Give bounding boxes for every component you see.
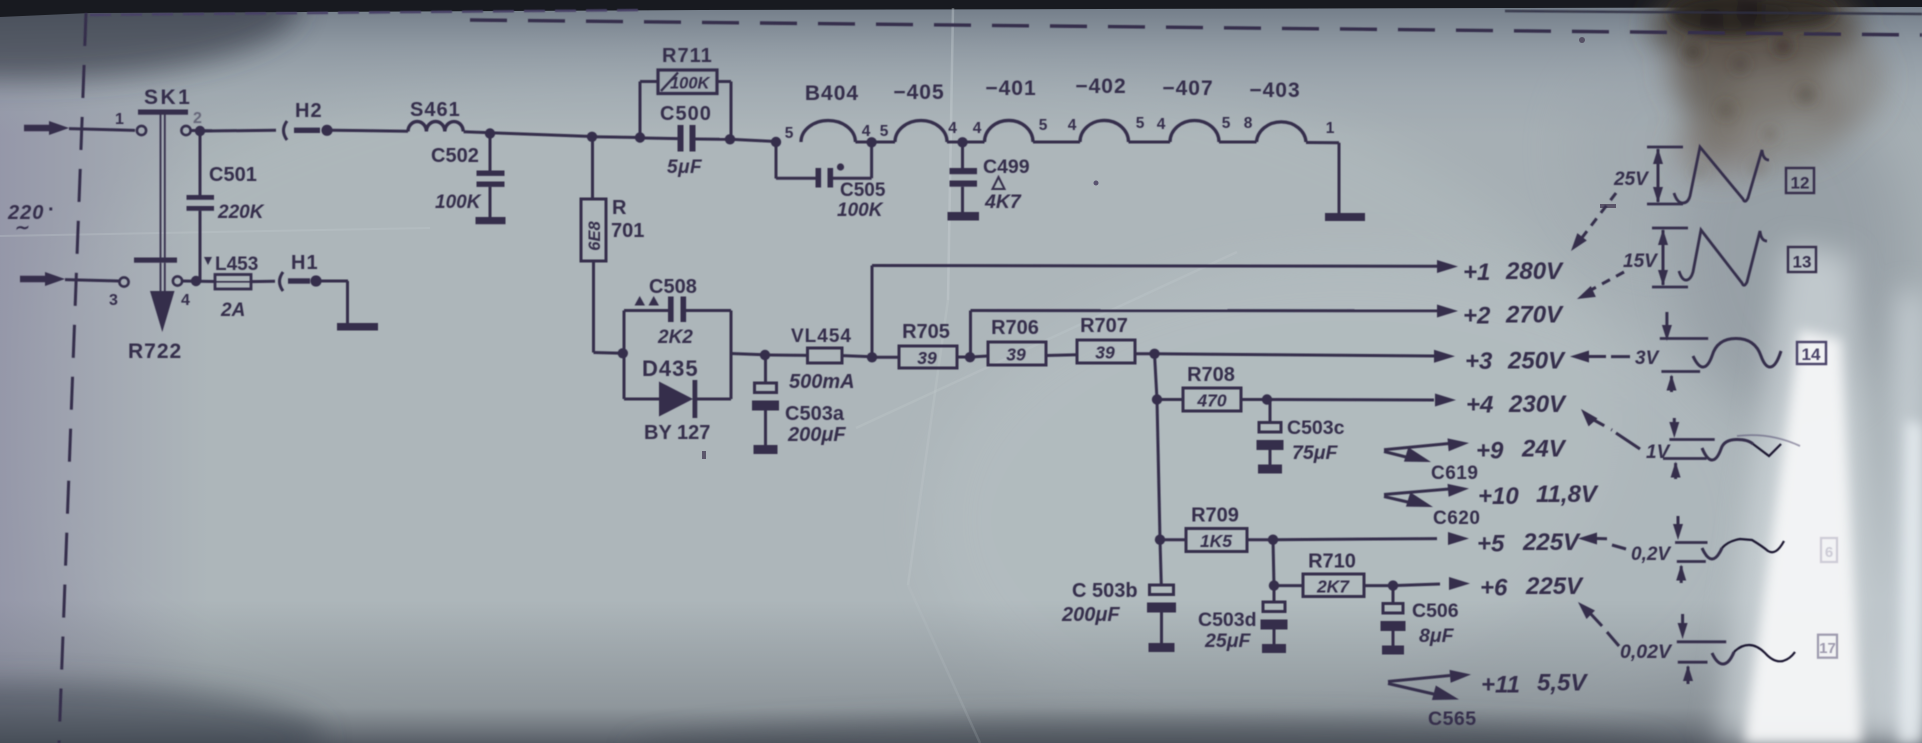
capacitor C505 [776, 142, 872, 188]
switch SK1 pin 2 [181, 110, 202, 135]
pointer 25V to +1 [1571, 193, 1616, 251]
inductor S461 [408, 99, 463, 132]
node R705-R706 [965, 352, 975, 362]
svg-text:5: 5 [1039, 117, 1048, 134]
choke -407 [1162, 77, 1219, 142]
svg-text:220K: 220K [217, 202, 265, 223]
value 8uF [1419, 625, 1455, 647]
wire to B404 [730, 139, 776, 141]
node R708 out [1262, 394, 1272, 404]
mains input arrow bottom [20, 272, 119, 286]
wire R710 out [1364, 584, 1393, 587]
svg-text:S461: S461 [410, 99, 461, 121]
label R722 [128, 340, 182, 363]
resistor R709 [1186, 505, 1247, 552]
waveform 1V [1702, 435, 1800, 460]
measure 1V top arrow [1669, 418, 1714, 440]
node C503a [760, 350, 770, 360]
svg-text:C619: C619 [1431, 463, 1478, 484]
switch SK1 contact bar bottom [134, 258, 177, 263]
svg-text:1: 1 [1326, 120, 1335, 137]
choke B404 [801, 82, 859, 142]
box 17 [1818, 635, 1837, 658]
chassis bar after H1 [337, 323, 378, 331]
value 220K [217, 202, 265, 223]
label C503d [1198, 609, 1257, 631]
switch SK1 label [144, 86, 192, 109]
capacitor C501 [187, 131, 215, 281]
chassis bar choke end [1325, 213, 1365, 221]
svg-text:0,02V: 0,02V [1620, 641, 1673, 663]
svg-text:C500: C500 [660, 103, 712, 125]
output fork +10 C620 [1384, 484, 1480, 529]
svg-text:225V: 225V [1525, 573, 1584, 600]
wire choke end down [1306, 143, 1339, 214]
svg-text:+6: +6 [1480, 575, 1508, 602]
svg-text:BY 127: BY 127 [644, 422, 710, 444]
label C508 [649, 276, 697, 298]
svg-text:200μF: 200μF [1061, 604, 1120, 626]
svg-text:C499: C499 [983, 156, 1030, 178]
fuse L453 [182, 275, 251, 290]
svg-text:R710: R710 [1308, 551, 1356, 573]
wire to R706 [970, 356, 988, 357]
label D435 [642, 356, 699, 381]
node C501 top [195, 126, 205, 136]
value 5uF [667, 157, 703, 178]
wire rail down [1155, 354, 1162, 585]
svg-text:5: 5 [1136, 115, 1145, 132]
svg-text:0,2V: 0,2V [1631, 544, 1671, 565]
boundary dashed border top fine [90, 10, 648, 15]
svg-text:17: 17 [1819, 640, 1836, 657]
wire to R708 [1157, 398, 1183, 401]
choke -401 [985, 77, 1037, 142]
svg-text:C505: C505 [840, 180, 886, 201]
mains input arrow top [24, 121, 135, 135]
wire +1 riser [872, 266, 1437, 358]
svg-text:2A: 2A [220, 300, 245, 321]
svg-text:200μF: 200μF [787, 424, 846, 446]
svg-text:C502: C502 [431, 145, 479, 167]
boundary dashed border left [59, 13, 86, 743]
connector H1 [251, 252, 322, 291]
box 12 [1786, 168, 1814, 193]
label C501 [209, 164, 257, 186]
wire +4 line [1267, 398, 1434, 402]
label C502 [431, 145, 479, 167]
measure 0,02V top arrow [1677, 614, 1726, 642]
svg-text:100K: 100K [670, 75, 711, 93]
wire choke segments [855, 141, 1256, 144]
label R701 [611, 197, 644, 242]
wire H1 to chassis [321, 281, 348, 323]
svg-text:+3: +3 [1465, 348, 1493, 375]
resistor R705 [899, 321, 957, 368]
label +9 [1476, 436, 1567, 465]
svg-text:R709: R709 [1191, 505, 1239, 527]
svg-text:5: 5 [785, 125, 794, 142]
svg-text:4: 4 [862, 123, 871, 140]
svg-text:6E8: 6E8 [586, 220, 604, 250]
label 220V mains [7, 199, 55, 237]
wire to R709 [1160, 538, 1186, 541]
svg-text:L453: L453 [215, 254, 258, 275]
svg-text:12: 12 [1791, 174, 1810, 193]
label L453 [204, 254, 258, 275]
switch SK1 contact bar top [138, 110, 188, 115]
wire to R710 [1274, 584, 1303, 587]
switch SK1 pin 3 [109, 277, 129, 309]
marker triangle C499 [993, 177, 1005, 189]
switch SK1 pin 4 [173, 276, 190, 309]
capacitor C503c [1257, 400, 1284, 474]
svg-text:−405: −405 [893, 81, 944, 104]
wire S461 to node [464, 132, 592, 137]
value 2K2 [657, 327, 693, 348]
label C499 [983, 156, 1030, 178]
label R711 [662, 45, 713, 67]
wire H2 to S461 [332, 129, 408, 133]
waveform 14 [1693, 339, 1781, 368]
svg-text:270V: 270V [1505, 302, 1564, 329]
svg-text:15V: 15V [1623, 251, 1658, 272]
waveform sawtooth 13 [1679, 230, 1767, 285]
marker triangles C508 [635, 296, 660, 306]
connector H2 [284, 100, 333, 140]
svg-text:6: 6 [1825, 544, 1833, 561]
capacitor C502 [477, 134, 505, 217]
output arrow +5 [1448, 529, 1581, 558]
capacitor C499 [950, 143, 978, 213]
svg-text:+9: +9 [1476, 438, 1504, 465]
measure 3V bottom arrow [1661, 372, 1700, 393]
wire D435 frame [624, 311, 764, 400]
measure 0,2V top arrow [1673, 516, 1708, 543]
svg-text:1: 1 [115, 111, 124, 128]
svg-text:4: 4 [1157, 116, 1166, 133]
label +10 [1478, 481, 1599, 510]
label C503b [1072, 580, 1138, 602]
svg-text:R711: R711 [662, 45, 713, 67]
pointer 1V to +4 [1581, 409, 1640, 449]
node choke 2-3 [957, 137, 967, 147]
measure 25V [1647, 147, 1683, 204]
svg-text:230V: 230V [1508, 391, 1567, 418]
svg-text:701: 701 [611, 220, 644, 242]
resistor R710 [1303, 551, 1364, 597]
svg-text:100K: 100K [435, 192, 482, 213]
svg-text:4: 4 [1068, 117, 1077, 134]
output arrow +2 [1437, 302, 1564, 330]
wire node to H2 [204, 129, 276, 133]
value 75uF [1292, 442, 1338, 464]
svg-text:39: 39 [1006, 345, 1026, 365]
capacitor C500 [644, 125, 728, 152]
svg-text:13: 13 [1793, 253, 1812, 272]
box 6 faint [1821, 538, 1837, 562]
value 100K [435, 192, 482, 213]
wire rail R710 [1273, 540, 1274, 586]
output arrow +6 [1449, 573, 1584, 602]
svg-text:C503d: C503d [1198, 609, 1257, 631]
wire +2 riser [971, 311, 1438, 358]
label C503a [785, 403, 845, 425]
switch SK1 actuator link [161, 115, 165, 258]
svg-text:R708: R708 [1187, 364, 1235, 386]
label +11 [1481, 670, 1588, 699]
node R708 in [1152, 394, 1162, 404]
resistor R707 [1077, 315, 1135, 363]
label 25V [1613, 169, 1649, 190]
svg-text:4: 4 [973, 120, 982, 137]
label 0,02V [1620, 641, 1673, 663]
pointer 0,2V to +5 [1578, 533, 1626, 550]
label C506 [1412, 600, 1459, 622]
output arrow +3 [1434, 348, 1566, 376]
node R709 in [1155, 535, 1165, 545]
capacitor C508 [668, 297, 686, 323]
value 4K7 [984, 191, 1022, 213]
box 14 [1797, 342, 1826, 364]
pointer 15V to +2 [1577, 272, 1624, 299]
svg-text:+4: +4 [1466, 392, 1493, 419]
node C502 [485, 128, 495, 138]
svg-text:4: 4 [948, 120, 957, 137]
svg-text:5,5V: 5,5V [1537, 670, 1588, 697]
svg-text:3V: 3V [1635, 348, 1660, 369]
svg-text:+2: +2 [1463, 303, 1491, 330]
output arrow +1 [1437, 258, 1564, 286]
wire R709 out [1247, 538, 1273, 541]
label 15V [1623, 251, 1658, 272]
node C500 left [635, 132, 645, 142]
svg-text:C 503b: C 503b [1072, 580, 1138, 602]
resistor R706 [988, 317, 1046, 365]
output fork +11 C565 [1388, 670, 1477, 730]
svg-text:C503c: C503c [1287, 417, 1345, 439]
measure 0,2V bottom arrow [1676, 562, 1706, 584]
svg-text:8: 8 [1244, 115, 1253, 132]
svg-text:+10: +10 [1478, 483, 1519, 510]
node choke 1-2 [866, 137, 876, 147]
svg-text:R706: R706 [991, 317, 1039, 339]
svg-text:C503a: C503a [785, 403, 845, 425]
svg-text:5: 5 [880, 123, 889, 140]
label BY 127 [644, 422, 710, 444]
svg-text:24V: 24V [1521, 436, 1567, 463]
node R710 out [1388, 580, 1398, 590]
svg-text:+11: +11 [1481, 672, 1520, 699]
fuse VL454 [770, 348, 872, 363]
svg-text:R: R [612, 197, 627, 219]
choke pin numbers [785, 115, 1335, 142]
boundary dashed border top heavy [470, 20, 1922, 35]
svg-text:500mA: 500mA [789, 371, 855, 393]
choke -405 [893, 81, 947, 142]
label 0,2V [1631, 544, 1671, 565]
svg-text:+1: +1 [1463, 259, 1490, 286]
svg-text:−407: −407 [1162, 77, 1213, 100]
svg-text:C508: C508 [649, 276, 697, 298]
svg-text:C620: C620 [1433, 508, 1480, 529]
chassis bar C502 [476, 217, 506, 224]
paper top edge line [1505, 11, 1922, 14]
node C500 right [725, 134, 735, 144]
label C505 [840, 180, 886, 201]
svg-text:2: 2 [193, 110, 202, 127]
svg-text:H2: H2 [295, 100, 323, 122]
box 13 [1788, 247, 1816, 272]
output fork +9 C619 [1384, 438, 1478, 484]
node R707 out [1149, 349, 1159, 359]
measure 15V [1652, 228, 1688, 287]
pointer 0,02V to +6 [1578, 602, 1619, 646]
svg-text:8μF: 8μF [1419, 625, 1455, 647]
switch SK1 pin 1 [115, 111, 146, 135]
measure 3V top arrow [1660, 312, 1708, 341]
diode BY127 [659, 380, 697, 418]
node R710 in [1269, 580, 1279, 590]
label 1V [1646, 442, 1671, 463]
node R709 out [1268, 535, 1278, 545]
svg-text:−401: −401 [985, 77, 1036, 100]
arrow R722 [150, 263, 175, 332]
wire pin2 to node [191, 129, 212, 132]
resistor R711 [640, 70, 731, 139]
svg-text:280V: 280V [1505, 258, 1564, 285]
svg-text:11,8V: 11,8V [1536, 481, 1599, 508]
node C501 bottom [191, 276, 201, 286]
wire R708 out [1241, 398, 1267, 401]
measure 0,02V bottom arrow [1678, 662, 1708, 684]
capacitor C503a [752, 355, 779, 454]
svg-text:75μF: 75μF [1292, 442, 1338, 464]
output arrow +4 [1435, 391, 1567, 419]
svg-text:25μF: 25μF [1204, 630, 1251, 652]
wire +6 line [1393, 584, 1440, 586]
wire +3 line [1155, 354, 1435, 356]
svg-text:250V: 250V [1507, 348, 1566, 375]
svg-text:5: 5 [1222, 115, 1231, 132]
label VL454 [791, 326, 852, 347]
capacitor C506 [1381, 586, 1406, 655]
node B404 in [771, 137, 781, 147]
measure 1V bottom arrow [1663, 459, 1707, 480]
svg-text:H1: H1 [291, 252, 319, 274]
svg-text:4K7: 4K7 [984, 191, 1022, 213]
svg-text:39: 39 [1095, 343, 1115, 363]
svg-text:D435: D435 [642, 356, 699, 381]
svg-text:470: 470 [1196, 391, 1226, 411]
svg-text:5μF: 5μF [667, 157, 703, 178]
capacitor C503b [1147, 585, 1176, 652]
svg-text:−402: −402 [1075, 75, 1126, 98]
svg-text:·: · [48, 199, 55, 221]
svg-text:14: 14 [1802, 345, 1821, 364]
wire +5 line [1273, 539, 1437, 540]
resistor R701 [581, 137, 622, 353]
chassis bar C499 [948, 212, 980, 221]
svg-text:100K: 100K [837, 200, 884, 221]
svg-text:1K5: 1K5 [1200, 531, 1232, 551]
resistor R708 [1183, 364, 1241, 411]
value 2A [220, 300, 245, 321]
svg-text:2K7: 2K7 [1316, 577, 1350, 597]
node R701 top [587, 132, 597, 142]
choke -403 [1249, 79, 1306, 142]
svg-text:4: 4 [181, 292, 190, 309]
svg-text:C565: C565 [1428, 708, 1477, 730]
value 500mA [789, 371, 855, 393]
svg-text:SK1: SK1 [144, 86, 192, 109]
svg-text:25V: 25V [1613, 169, 1649, 190]
svg-text:−403: −403 [1249, 79, 1300, 102]
svg-text:R722: R722 [128, 340, 182, 363]
choke -402 [1075, 75, 1128, 142]
svg-text:2K2: 2K2 [657, 327, 693, 348]
wire R707 out [1135, 352, 1154, 355]
wire R705 out [957, 356, 970, 359]
svg-text:C501: C501 [209, 164, 257, 186]
svg-text:3: 3 [109, 292, 118, 309]
pointer 3V to +3 [1570, 351, 1630, 363]
svg-text:B404: B404 [805, 82, 859, 105]
wire R706 to R707 [1046, 353, 1077, 357]
waveform 0,02V [1712, 645, 1795, 664]
svg-text:∼: ∼ [14, 218, 29, 237]
value 100K C505 [837, 200, 884, 221]
label C500 [660, 103, 712, 125]
value 200uF C503b [1061, 604, 1120, 626]
svg-text:R705: R705 [902, 321, 950, 343]
svg-text:39: 39 [917, 348, 937, 368]
waveform 0,2V [1702, 539, 1784, 559]
value 200uF C503a [787, 424, 846, 446]
svg-text:VL454: VL454 [791, 326, 852, 347]
capacitor C503d [1261, 586, 1288, 653]
node fuse out [867, 352, 877, 362]
waveform sawtooth 12 [1674, 147, 1769, 203]
wire to R705 [872, 356, 899, 359]
svg-text:225V: 225V [1522, 529, 1581, 556]
label C503c [1287, 417, 1345, 439]
svg-text:C506: C506 [1412, 600, 1459, 622]
svg-text:+5: +5 [1477, 531, 1505, 558]
svg-text:R707: R707 [1080, 315, 1128, 337]
node D435 left [618, 348, 628, 358]
wire node to C500 node [592, 135, 640, 139]
label 3V [1635, 348, 1660, 369]
value 25uF [1204, 630, 1251, 652]
